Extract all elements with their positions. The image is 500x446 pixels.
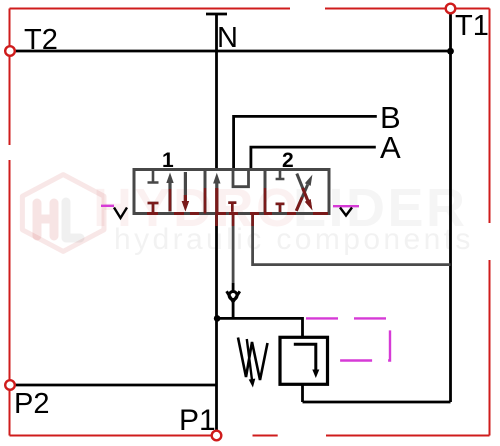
check valve CV1: [227, 291, 240, 302]
port P1: [212, 431, 222, 441]
wire B line: [234, 116, 377, 169]
port T1: [446, 4, 456, 14]
valve section 3 crossed arrows: [296, 174, 312, 211]
pilot line (magenta dashed): [306, 318, 390, 360]
valve section 3 blocked port bottom: [276, 204, 285, 212]
valve section 2 bridge: [233, 170, 249, 187]
valve section 1 up arrow: [166, 173, 173, 212]
wire T1 vertical: [449, 14, 452, 403]
valve section 3 blocked port top: [276, 171, 285, 179]
wire A line: [251, 147, 376, 169]
svg-text:T1: T1: [455, 10, 489, 42]
svg-text:2: 2: [282, 149, 294, 172]
relief valve RV1 internal arrow: [294, 344, 320, 378]
wire relief feed: [217, 318, 303, 337]
svg-text:1: 1: [162, 149, 174, 172]
svg-text:N: N: [217, 22, 238, 54]
watermark logo letters HL: [37, 202, 80, 238]
wire T2 line: [10, 50, 451, 53]
wire N/P1 vertical: [206, 14, 227, 431]
wire relief tank stub: [301, 384, 304, 402]
wire check valve branch: [232, 214, 235, 284]
svg-text:A: A: [380, 130, 401, 165]
valve section 2 blocked port bottom: [228, 203, 236, 212]
node junction P1/relief: [214, 315, 221, 322]
svg-text:P2: P2: [14, 388, 49, 420]
relief valve adjust arrow: [247, 339, 256, 388]
wire valve tank return (gray): [253, 214, 451, 265]
maroon watermark overlaps: [148, 188, 285, 226]
node junction T1/T2: [447, 48, 454, 55]
svg-text:hydraulic components: hydraulic components: [114, 223, 474, 256]
valve V1 body: [134, 170, 329, 214]
lever symbol right: [333, 205, 359, 207]
watermark logo hexagon: [22, 175, 104, 252]
valve section 1 blocked port bottom: [148, 203, 159, 212]
relief valve RV1 body: [280, 337, 328, 384]
wire P2 line: [10, 384, 217, 387]
svg-text:T2: T2: [24, 24, 58, 56]
valve section 1 blocked port top: [148, 171, 159, 183]
lever symbol left: [101, 205, 114, 207]
relief valve spring: [238, 338, 268, 381]
port T2: [5, 46, 15, 56]
port P2: [5, 380, 15, 390]
valve section 2 (middle) up arrow: [213, 173, 220, 214]
wire tank bottom return: [303, 401, 451, 404]
svg-text:P1: P1: [179, 404, 216, 437]
maroon dashes on valve bottom edge: [147, 212, 328, 215]
valve section 1 down arrow: [182, 172, 189, 212]
